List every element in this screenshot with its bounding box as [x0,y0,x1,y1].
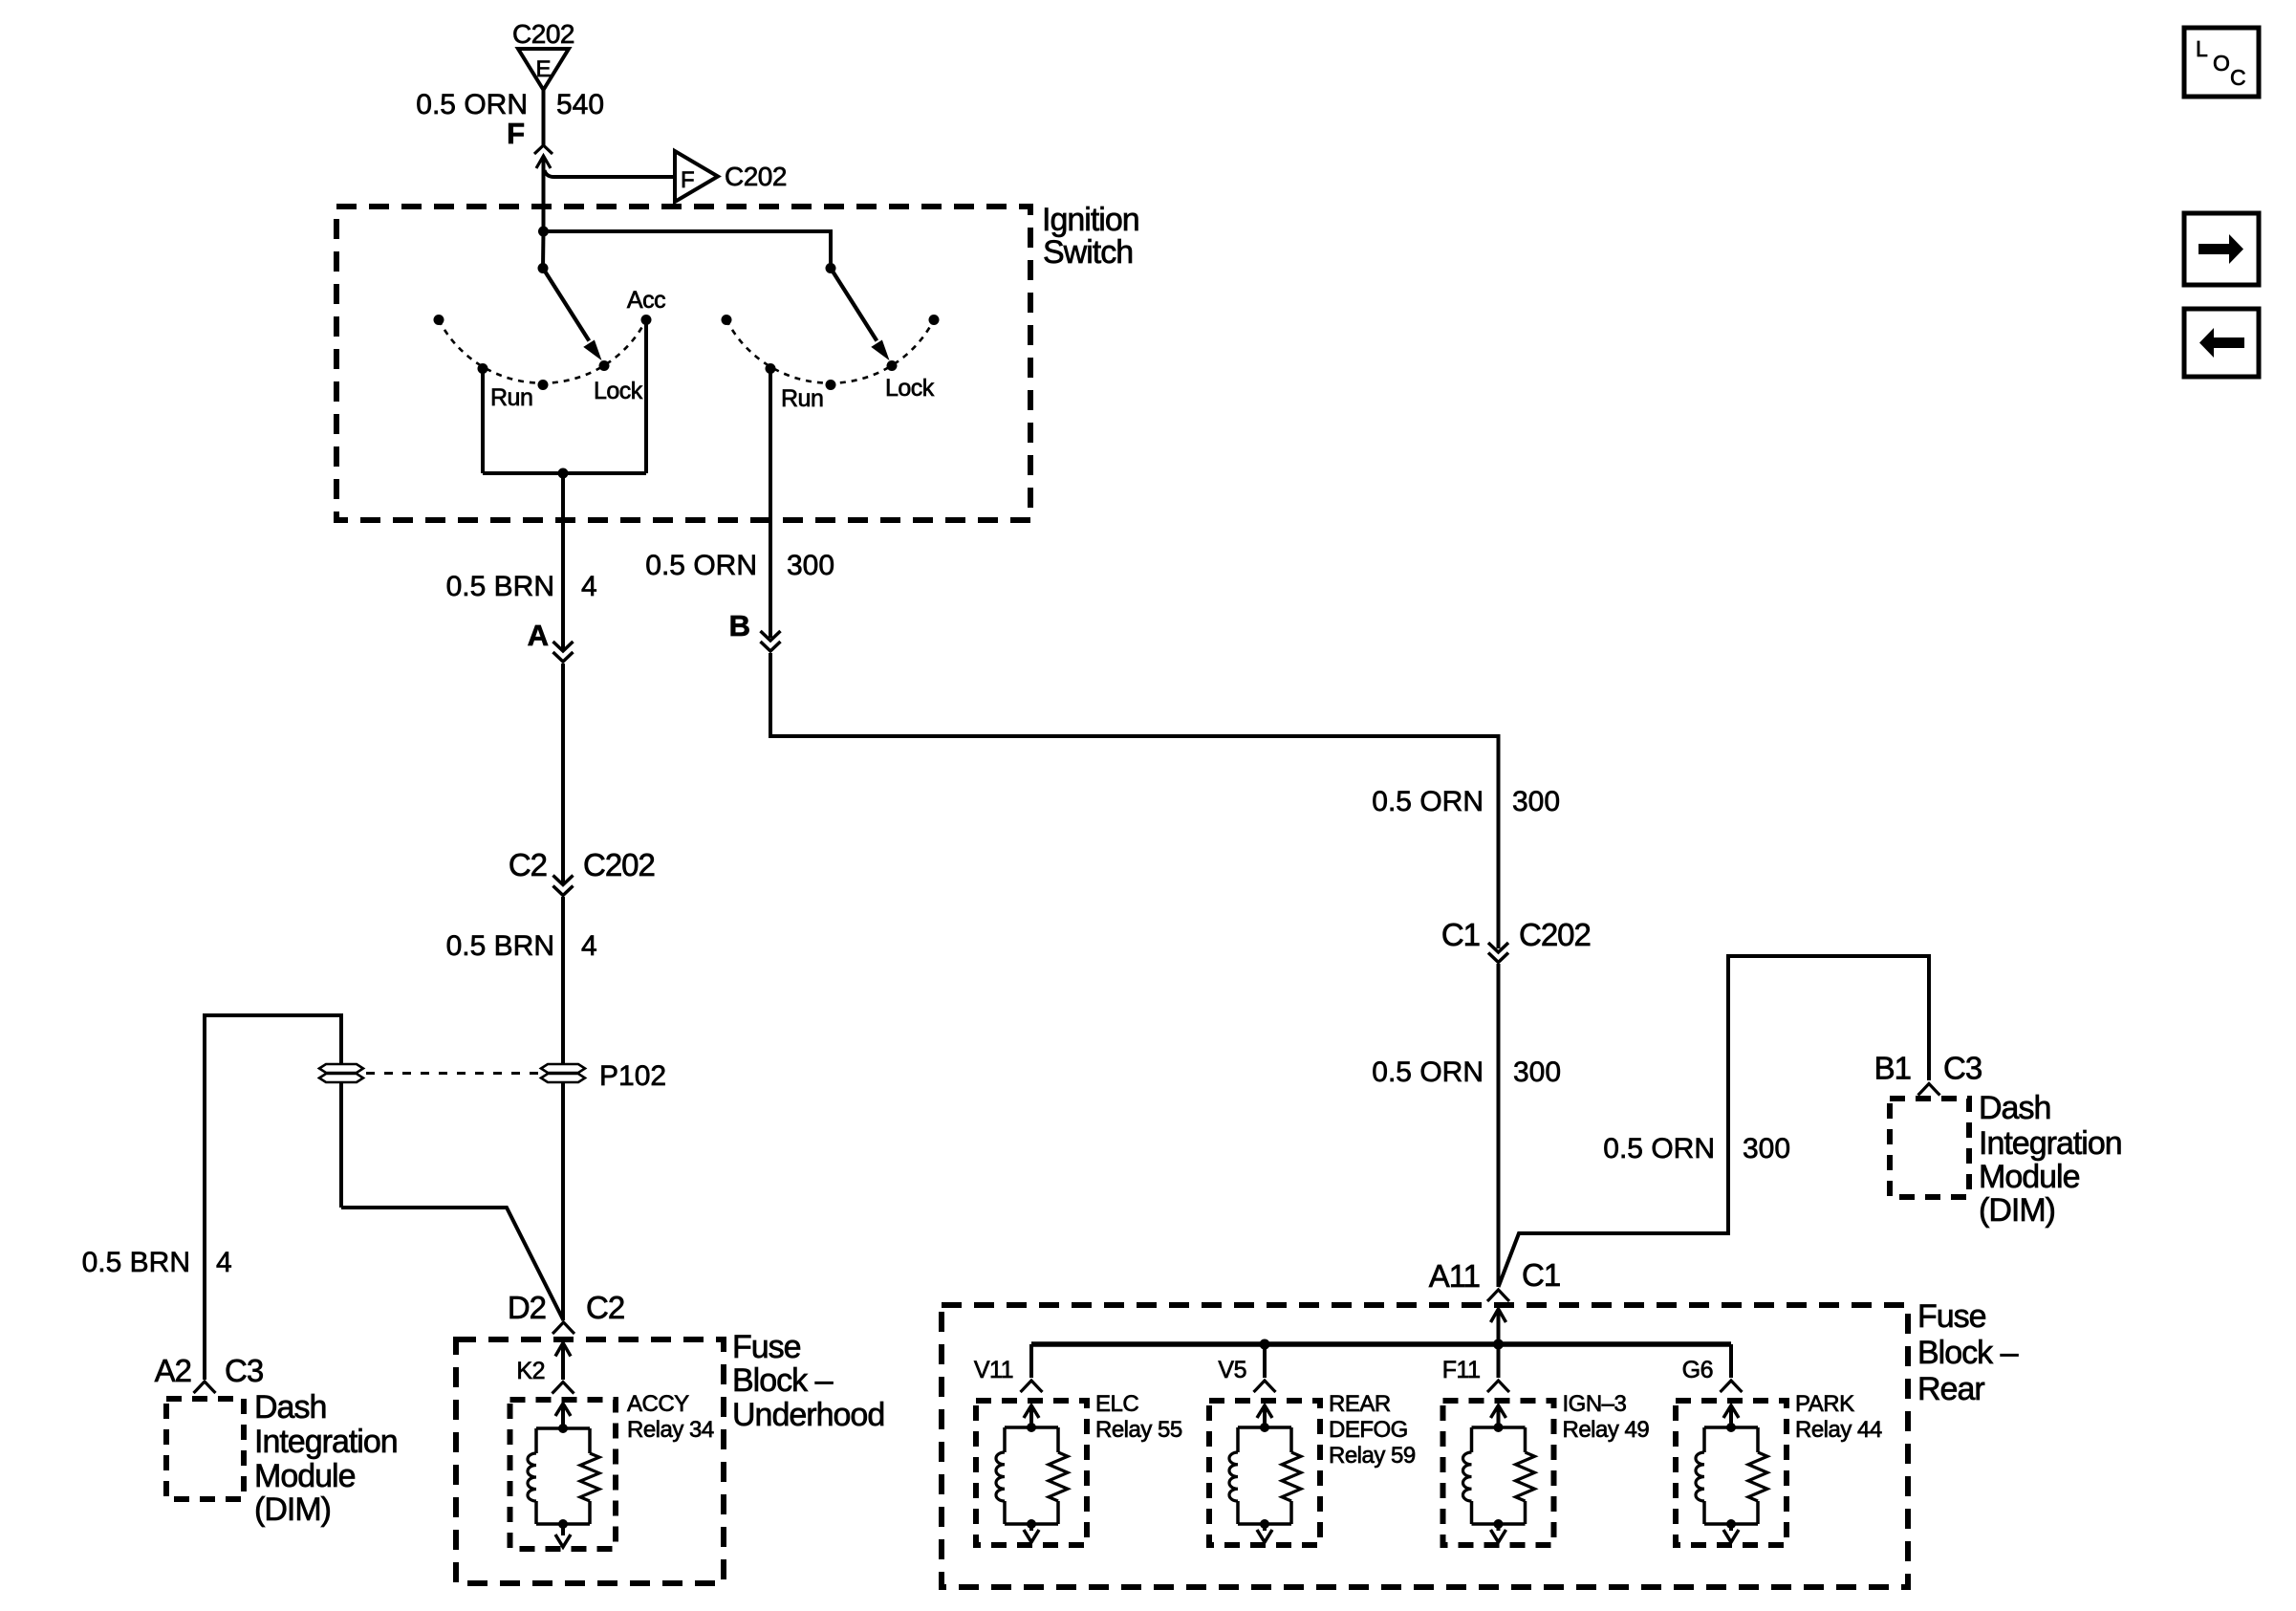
svg-text:B: B [729,609,750,642]
fuse block rear box [942,1305,1908,1587]
wire: pole 1 output down to connector A [561,473,565,649]
svg-text:Fuse: Fuse [732,1329,801,1365]
dashed link between grommets [366,1072,539,1075]
DIM box (left) [166,1399,244,1499]
svg-text:O: O [2213,51,2230,76]
grommet P102 [541,1064,585,1073]
wire: feed to pole 2 [544,231,832,268]
switch pole 2 contact arc [726,320,934,383]
svg-text:Module: Module [1979,1159,2080,1195]
switch pole 2 contact dots [722,315,732,325]
svg-text:Block –: Block – [1917,1335,2019,1371]
node: feed junction [538,227,549,237]
svg-text:Module: Module [254,1458,356,1494]
wire break chevron [534,145,552,154]
wire: F11 drop [1497,1344,1501,1378]
svg-text:C1: C1 [1441,917,1480,952]
svg-text:0.5 ORN: 0.5 ORN [1603,1133,1715,1165]
svg-text:Acc: Acc [627,287,665,314]
svg-text:4: 4 [581,571,597,602]
svg-text:Integration: Integration [254,1424,398,1460]
svg-text:0.5 BRN: 0.5 BRN [446,930,554,962]
svg-text:C2: C2 [586,1290,624,1325]
wire: A to connector C2 [561,664,565,883]
wire: B to connector C1 [770,653,1499,948]
svg-text:A: A [528,619,549,652]
svg-text:C202: C202 [512,19,574,49]
svg-text:C202: C202 [1519,917,1591,952]
svg-text:0.5 BRN: 0.5 BRN [446,571,554,602]
svg-text:540: 540 [556,89,604,120]
wire: pole 2 Run contact down to connector B [769,371,772,639]
svg-text:Switch: Switch [1043,234,1133,271]
wire: A11 feed into block [1491,1309,1506,1322]
wire: C2 to P102 [561,897,565,1064]
svg-text:IGN–3: IGN–3 [1563,1391,1627,1417]
switch pole 1 wiper arrow [543,269,589,341]
connector break A (double chevron) [553,642,574,651]
svg-text:B1: B1 [1874,1051,1911,1086]
bus inside rear block [1029,1344,1033,1378]
svg-text:A2: A2 [155,1353,191,1388]
svg-text:V5: V5 [1218,1357,1246,1383]
PARK Relay 44 box [1676,1401,1787,1545]
wire: pole 1 output bus [483,471,646,475]
svg-text:REAR: REAR [1329,1391,1391,1417]
svg-text:DEFOG: DEFOG [1329,1417,1408,1443]
svg-text:A11: A11 [1429,1258,1480,1294]
grommet (left, DIM harness) [319,1064,363,1073]
svg-text:C2: C2 [509,847,547,882]
wire: feed junction to pole 1 pivot [541,231,546,269]
ignition switch box [336,207,1030,520]
wire: ignition switch feed (below break) [542,156,546,231]
ELC Relay 55 box [976,1401,1087,1545]
wire: C1 to A11 [1497,964,1501,1287]
svg-text:D2: D2 [508,1290,546,1325]
wire: DIM A2 branch (corner path) [205,1015,341,1380]
icon arrow left box [2184,309,2259,377]
wire: Run contact down (pole 1) [481,369,485,474]
svg-text:4: 4 [581,930,597,962]
svg-text:K2: K2 [516,1358,545,1384]
svg-text:C202: C202 [583,847,655,882]
svg-text:0.5 ORN: 0.5 ORN [1372,786,1484,817]
svg-text:C202: C202 [725,162,787,191]
connector break B (double chevron) [761,631,781,641]
icon arrow right box [2184,213,2259,285]
ELC Relay 55 coil [1024,1405,1039,1418]
node: bus junction feed [1493,1339,1504,1350]
svg-text:C: C [2230,65,2246,90]
svg-text:Lock: Lock [594,378,643,404]
svg-text:Relay 34: Relay 34 [627,1417,714,1443]
svg-text:300: 300 [787,550,834,581]
svg-text:(DIM): (DIM) [254,1491,331,1528]
svg-text:Integration: Integration [1979,1125,2122,1162]
svg-text:Relay 49: Relay 49 [1563,1417,1650,1443]
svg-text:C3: C3 [225,1353,263,1388]
svg-text:V11: V11 [974,1357,1013,1383]
svg-text:300: 300 [1743,1133,1790,1165]
pin K2 [555,1343,571,1357]
svg-text:Lock: Lock [885,375,935,402]
arrowhead pointing up at break [536,156,551,168]
PARK Relay 44 coil [1723,1405,1739,1418]
wire: DIM B1 branch [1499,956,1930,1287]
svg-text:ELC: ELC [1095,1391,1138,1417]
svg-text:Run: Run [490,384,532,411]
switch pole 1 pivot [538,263,549,273]
svg-text:ACCY: ACCY [627,1391,689,1417]
IGN-3 Relay 49 box [1443,1401,1554,1545]
svg-text:0.5 BRN: 0.5 BRN [82,1247,190,1278]
svg-text:Dash: Dash [254,1389,326,1426]
svg-text:F: F [681,167,695,193]
switch pole 2 wiper arrow [831,269,877,341]
node: pole 1 output junction [558,468,569,479]
switch pole 2 pivot [826,263,836,273]
svg-text:4: 4 [216,1247,232,1278]
svg-text:C3: C3 [1943,1051,1982,1086]
svg-text:F: F [507,117,525,150]
svg-text:Relay 55: Relay 55 [1095,1417,1182,1443]
svg-text:PARK: PARK [1795,1391,1854,1417]
svg-text:Underhood: Underhood [732,1397,884,1433]
wire: connector E down to break [542,90,546,145]
svg-text:Ignition: Ignition [1042,202,1139,238]
icon LOC box [2184,28,2259,97]
switch pole 1 contact dots [434,315,444,325]
svg-text:F11: F11 [1442,1357,1481,1383]
svg-text:Rear: Rear [1917,1371,1984,1407]
svg-text:Relay 44: Relay 44 [1795,1417,1882,1443]
svg-text:0.5 ORN: 0.5 ORN [1372,1056,1484,1088]
svg-text:E: E [535,56,551,82]
REAR DEFOG Relay 59 coil [1257,1405,1272,1418]
svg-text:Relay 59: Relay 59 [1329,1443,1416,1469]
svg-text:P102: P102 [599,1060,666,1092]
svg-text:0.5 ORN: 0.5 ORN [645,550,757,581]
svg-text:(DIM): (DIM) [1979,1192,2055,1229]
fuse block underhood box [456,1339,724,1583]
svg-text:C1: C1 [1522,1257,1560,1293]
REAR DEFOG Relay 59 box [1209,1401,1320,1545]
node: bus junction V5 [1260,1339,1270,1350]
wire: branch to connector F [545,170,676,177]
svg-text:Block –: Block – [732,1362,834,1399]
svg-text:300: 300 [1512,786,1560,817]
ACCY Relay 34 box [510,1400,617,1549]
svg-text:Run: Run [781,385,823,412]
wire: Acc contact down (pole 1) [644,320,648,474]
IGN-3 Relay 49 coil [1491,1405,1506,1418]
svg-text:G6: G6 [1682,1357,1713,1383]
switch pole 1 contact arc [439,320,646,383]
svg-text:300: 300 [1513,1056,1561,1088]
wire: V5 drop [1263,1344,1267,1378]
page connector F to C202 [675,151,718,202]
ACCY Relay 34 coil [555,1404,571,1416]
wire: P102 to connector D2 [561,1082,565,1320]
svg-text:L: L [2196,36,2208,61]
svg-text:Dash: Dash [1979,1090,2050,1126]
svg-text:Fuse: Fuse [1917,1298,1986,1335]
DIM box (right) [1890,1099,1969,1197]
